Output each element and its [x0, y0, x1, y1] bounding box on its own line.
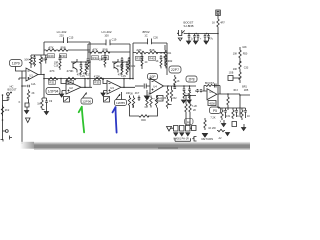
svg-text:IN4001 PH-1R: IN4001 PH-1R — [173, 138, 189, 141]
cluster x233 — [232, 108, 238, 119]
svg-text:47K: 47K — [48, 46, 53, 50]
bottom right cluster x222 — [221, 108, 227, 120]
svg-text:2K: 2K — [193, 109, 196, 112]
capacitor pair left of loop C 1 — [121, 57, 124, 70]
svg-text:473K: 473K — [94, 75, 101, 79]
U5 lower ground — [203, 118, 208, 137]
wire U3 output — [121, 79, 135, 88]
wire stage4 input — [135, 85, 144, 87]
transistor Q1 — [73, 59, 77, 73]
wire main bus y78.6 — [44, 75, 133, 79]
capacitor mid loop B — [104, 52, 107, 67]
capacitor bm3 — [138, 96, 141, 102]
svg-text:R30: R30 — [60, 54, 66, 58]
capacitor hang B1 — [121, 62, 124, 75]
loop A inner row — [44, 49, 46, 51]
wire bottom return — [175, 138, 194, 142]
capacitor below loop C — [141, 53, 144, 70]
capacitor inside loop A — [59, 55, 62, 62]
ground hang U4-2 — [187, 100, 191, 103]
svg-text:U3: U3 — [110, 86, 114, 90]
wire U3 plus input — [104, 91, 108, 94]
resistor inside loop A — [59, 62, 61, 70]
box return — [192, 126, 197, 131]
wire U4 output — [164, 85, 197, 87]
wiper wire stage3 — [116, 92, 122, 100]
op-amp U5 — [207, 89, 217, 100]
jack circle 2 — [5, 130, 8, 133]
svg-text:1C: 1C — [144, 61, 147, 64]
svg-text:+: + — [153, 97, 155, 101]
svg-text:3K3: 3K3 — [116, 65, 121, 68]
resistor R38 — [136, 51, 146, 53]
capacitor U5 input b — [200, 89, 203, 93]
svg-text:10K: 10K — [24, 58, 29, 62]
resistor above U1 — [30, 55, 33, 68]
svg-text:LC-402: LC-402 — [57, 30, 67, 34]
ground small x227 — [226, 133, 230, 136]
svg-text:RETURN: RETURN — [202, 137, 214, 141]
photocell box stage2 — [64, 97, 70, 103]
svg-text:1K: 1K — [159, 52, 162, 55]
svg-text:+: + — [138, 97, 140, 101]
ground bottom right boxes — [174, 133, 178, 136]
svg-text:C19: C19 — [112, 38, 117, 42]
svg-text:47K: 47K — [77, 74, 82, 77]
svg-text:47K: 47K — [118, 74, 123, 77]
capacitor boost 2a — [193, 34, 196, 42]
wire U5 output — [218, 93, 241, 95]
svg-text:998: 998 — [60, 46, 65, 50]
capacitor below loop B left — [87, 58, 90, 70]
resistor R30 — [58, 49, 68, 51]
resistor R40 — [148, 51, 158, 53]
svg-text:22K: 22K — [136, 48, 141, 52]
svg-text:12P96: 12P96 — [82, 100, 91, 104]
resistor cap pair x174 — [174, 75, 177, 89]
corner mark — [1, 136, 13, 142]
svg-text:C28: C28 — [185, 94, 190, 97]
svg-text:U2: U2 — [69, 86, 73, 90]
svg-text:1C: 1C — [144, 34, 147, 38]
wire loop A inner — [56, 49, 90, 51]
open triangle left — [26, 118, 31, 123]
op-amp U2 — [66, 81, 81, 95]
svg-text:12P9: 12P9 — [12, 62, 20, 66]
wire boost bus — [185, 33, 219, 35]
resistor on x22 branch — [27, 90, 29, 101]
capacitor right inside loop C 1 — [160, 55, 163, 68]
resistor bm6 — [155, 96, 157, 108]
wire U2 output — [81, 79, 92, 88]
svg-text:R38: R38 — [136, 57, 142, 61]
capacitor hang A2 — [85, 62, 88, 75]
capacitor loop B — [106, 40, 110, 46]
svg-text:998: 998 — [102, 48, 107, 52]
photocell box stage3 — [104, 97, 110, 103]
svg-text:1K: 1K — [247, 115, 250, 118]
right column x240 — [233, 47, 250, 115]
resistor R36 — [100, 51, 110, 53]
svg-text:3K: 3K — [164, 97, 167, 100]
bottom right verticals x186 x190 — [184, 96, 196, 126]
svg-text:846: 846 — [149, 48, 154, 52]
resistor x228 down — [227, 94, 229, 110]
resistor bottom mid H — [139, 115, 149, 117]
svg-text:10P: 10P — [149, 75, 156, 79]
svg-text:4558: 4558 — [209, 102, 215, 105]
svg-text:47K: 47K — [49, 69, 54, 73]
svg-text:220: 220 — [59, 34, 64, 38]
svg-text:1K 2W: 1K 2W — [208, 127, 216, 130]
node label 10P above U4 — [148, 74, 158, 80]
node label 12P9 — [10, 60, 23, 67]
wire U5 loop — [204, 84, 220, 95]
ground x27 — [25, 111, 29, 114]
svg-text:47K: 47K — [92, 48, 97, 52]
svg-text:7.2K: 7.2K — [210, 117, 215, 120]
loop B verticals — [88, 44, 130, 79]
branch on long vertical — [22, 85, 29, 88]
ground boost 1 — [187, 41, 191, 44]
resistor right column x165 — [164, 45, 166, 66]
svg-text:C32: C32 — [237, 115, 242, 118]
capacitor hang A1 — [80, 62, 83, 75]
svg-text:3K3: 3K3 — [233, 89, 238, 92]
svg-text:R33: R33 — [67, 81, 73, 85]
svg-text:22P7: 22P7 — [171, 68, 179, 72]
designator boxes — [48, 54, 156, 85]
transistor Q2 — [114, 59, 118, 73]
resistor bm5 — [150, 96, 152, 108]
op-amp U3 — [107, 81, 121, 95]
hang components after U4 2 — [188, 86, 191, 99]
node label 2P — [186, 76, 197, 82]
svg-text:R42: R42 — [168, 60, 173, 63]
svg-text:SJ-BNB: SJ-BNB — [184, 24, 194, 28]
svg-text:1K: 1K — [176, 80, 179, 83]
wire loop A lower — [71, 61, 90, 63]
svg-text:R31: R31 — [49, 81, 55, 85]
svg-text:470K: 470K — [66, 69, 73, 73]
annotation arrow green — [79, 107, 84, 133]
ground U3 — [101, 93, 105, 96]
wire loop B lower — [112, 61, 130, 63]
svg-text:C26: C26 — [153, 36, 158, 40]
resistor bm4 — [146, 96, 148, 108]
connector J3 top — [216, 10, 221, 16]
wire U5 input — [195, 90, 207, 92]
node label 1P85 blue target — [115, 100, 127, 106]
capacitor boost 3a — [204, 34, 207, 42]
svg-text:U1: U1 — [29, 74, 33, 78]
svg-text:1GB: 1GB — [229, 72, 234, 75]
wire U2 plus input — [62, 91, 66, 95]
value box U5 — [208, 101, 216, 106]
resistor input vertical — [1, 105, 3, 116]
value box under U4 — [157, 96, 163, 102]
wire U3 minus input — [103, 79, 107, 84]
svg-text:1K: 1K — [155, 60, 158, 63]
wire bottom mid — [130, 96, 158, 117]
capacitor pair left of loop C 2 — [128, 57, 131, 70]
svg-text:R46: R46 — [141, 119, 146, 122]
boost switch SW1 — [177, 30, 185, 41]
box x233 — [232, 122, 237, 127]
wire stage1 output — [38, 74, 44, 76]
svg-text:10K: 10K — [242, 46, 247, 49]
node label 12P94 — [46, 88, 60, 95]
ground boost 3 — [204, 41, 208, 44]
resistor after U4 vertical 2 — [168, 86, 173, 105]
wire loopA left drop — [31, 42, 47, 55]
ground x244 — [242, 128, 246, 131]
feedback loop B top wire — [88, 43, 130, 45]
bracket return — [194, 137, 197, 142]
capacitor boost 1 — [188, 34, 191, 42]
svg-text:BOOST: BOOST — [7, 88, 16, 92]
capacitor boost 2b — [197, 34, 200, 42]
node label P8 box — [185, 119, 194, 125]
op-amp U4 — [150, 78, 164, 94]
capacitor boost 3b — [207, 34, 210, 42]
resistor bm1 — [128, 96, 130, 108]
svg-text:C16: C16 — [54, 65, 59, 68]
capacitor U5 input a — [196, 89, 199, 93]
resistor R29 — [46, 49, 56, 51]
svg-text:2K2: 2K2 — [172, 97, 177, 100]
hang components after U4 1 — [183, 86, 186, 99]
annotation arrow blue — [113, 107, 117, 132]
ground left low — [44, 112, 48, 115]
capacitor hang B2 — [126, 62, 129, 75]
small box cluster x26 — [25, 103, 29, 107]
svg-text:1R5: 1R5 — [244, 89, 249, 92]
cluster x242 — [241, 108, 247, 120]
resistor after U4 vertical — [166, 86, 168, 109]
resistor bm2 — [132, 96, 134, 108]
svg-text:2K2: 2K2 — [5, 109, 10, 112]
capacitor left low — [44, 98, 48, 106]
resistor R34 — [90, 51, 100, 53]
svg-text:BOOST: BOOST — [205, 81, 214, 85]
capacitor above U1 — [33, 55, 47, 67]
ground U4 — [145, 90, 150, 100]
resistor 1M left — [41, 98, 45, 110]
resistor boost feed — [217, 16, 219, 61]
open triangle arrow bm — [167, 127, 172, 132]
resistor R33 on bus — [66, 77, 76, 79]
svg-text:BR1: BR1 — [242, 86, 247, 89]
svg-text:1/2P94: 1/2P94 — [48, 90, 59, 94]
resistor above U1 right — [40, 55, 43, 75]
svg-text:C15: C15 — [69, 36, 74, 40]
boxes bottom right — [171, 126, 193, 132]
wire bottom right top — [218, 60, 246, 108]
capacitor C15 loop A — [64, 37, 68, 43]
capacitor C in stage4 — [144, 84, 150, 89]
svg-text:P8: P8 — [187, 120, 191, 124]
svg-text:7-2K: 7-2K — [192, 105, 198, 108]
svg-text:C31: C31 — [226, 115, 231, 118]
ground U2 — [60, 94, 64, 97]
node label 22P — [169, 66, 181, 73]
capacitor right inside loop C 2 — [165, 55, 168, 68]
svg-text:2P8: 2P8 — [188, 78, 194, 82]
capacitor loop C — [148, 39, 152, 45]
svg-text:47K: 47K — [83, 73, 88, 76]
svg-text:R49: R49 — [158, 98, 163, 101]
node label 12P96 green target — [81, 98, 93, 104]
svg-text:LO-402: LO-402 — [101, 30, 111, 34]
svg-text:12P85: 12P85 — [116, 101, 125, 105]
svg-text:PM: PM — [31, 63, 35, 66]
svg-text:8P02: 8P02 — [142, 30, 149, 34]
svg-text:R41: R41 — [167, 52, 172, 55]
svg-text:1K: 1K — [147, 93, 150, 96]
resistor R35 on bus — [94, 77, 104, 79]
feedback loop A top wire — [44, 41, 90, 43]
component branch left x228 — [228, 76, 233, 81]
svg-text:4R7: 4R7 — [220, 22, 225, 25]
wire loop B inner — [88, 51, 130, 53]
ground boost 2 — [194, 41, 198, 44]
svg-text:R34: R34 — [92, 56, 98, 60]
svg-text:R29: R29 — [48, 54, 54, 58]
feedback loop C top wire — [133, 42, 167, 44]
svg-text:C22: C22 — [131, 65, 136, 68]
svg-text:1K: 1K — [212, 22, 215, 25]
ground hang U4-1 — [182, 100, 186, 103]
capacitor input — [3, 98, 10, 101]
svg-text:4K7: 4K7 — [135, 92, 140, 95]
resistor R31 on bus — [48, 77, 58, 79]
jack circle input — [7, 93, 10, 96]
wire U1 inputs — [16, 67, 27, 81]
svg-text:10K: 10K — [233, 53, 238, 56]
svg-text:P5: P5 — [213, 109, 217, 113]
wiper wire stage2 — [83, 93, 87, 99]
loop C verticals — [133, 43, 167, 79]
svg-text:1/2L: 1/2L — [31, 83, 36, 86]
svg-text:10R: 10R — [99, 59, 104, 62]
node label P5 — [210, 107, 221, 114]
left drop from stage1 out — [43, 79, 45, 98]
svg-text:R40: R40 — [149, 57, 155, 61]
svg-text:R50: R50 — [243, 53, 248, 56]
svg-text:1M: 1M — [37, 103, 40, 106]
svg-text:U4: U4 — [153, 85, 157, 89]
svg-text:10K: 10K — [126, 92, 131, 95]
svg-text:2K: 2K — [31, 92, 34, 95]
svg-text:R35: R35 — [94, 81, 100, 85]
wire left vertical — [2, 95, 4, 140]
svg-text:3K: 3K — [130, 93, 133, 96]
wire U2 minus input — [61, 79, 66, 84]
svg-text:C33: C33 — [244, 67, 249, 70]
svg-text:100: 100 — [104, 34, 109, 38]
op-amp U1 — [26, 68, 38, 81]
wire loop C inner — [133, 52, 167, 54]
loop A right vertical — [89, 42, 91, 87]
component bottom left small — [217, 129, 225, 131]
svg-text:R27: R27 — [42, 58, 47, 62]
svg-text:10K: 10K — [233, 68, 238, 71]
ground x224 — [222, 124, 226, 127]
svg-text:47u: 47u — [209, 38, 214, 41]
ground U3 chain — [131, 104, 134, 108]
wire long vertical left — [21, 71, 23, 144]
